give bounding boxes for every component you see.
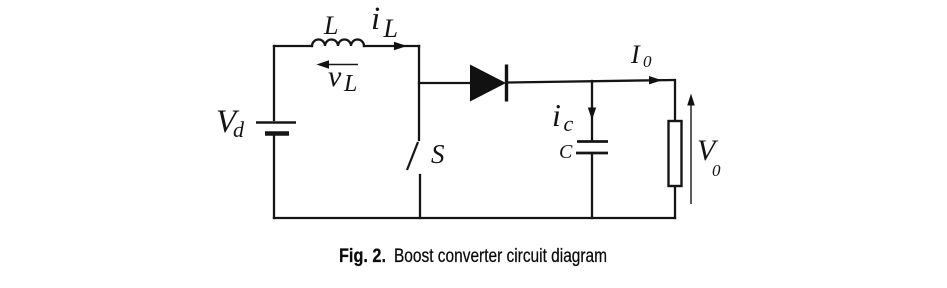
arrow iL on top wire (394, 42, 407, 50)
load resistor rectangle (669, 121, 682, 186)
wire left vertical lower (273, 135, 275, 218)
svg-text:L: L (383, 14, 398, 43)
battery source Vd (256, 123, 296, 134)
wire inductor to node A (364, 45, 419, 47)
wire switch lower vertical (419, 175, 421, 218)
wire capacitor branch lower (591, 154, 593, 218)
diode D (470, 65, 506, 102)
arrow I0 on output wire (649, 76, 662, 84)
wire diode to node B (507, 80, 674, 83)
wire capacitor branch upper (591, 81, 593, 140)
wire top left horizontal (274, 45, 312, 47)
svg-text:v: v (328, 60, 342, 93)
wire bottom (274, 217, 675, 219)
capacitor C plates (576, 142, 608, 154)
svg-text:d: d (233, 117, 245, 142)
wire node A to diode (419, 82, 470, 84)
arrow ic pointing down (588, 108, 596, 121)
svg-text:0: 0 (643, 52, 652, 71)
wire left vertical upper (273, 46, 275, 120)
svg-text:Boost converter circuit diagra: Boost converter circuit diagram (394, 246, 607, 267)
svg-text:i: i (371, 1, 380, 37)
svg-text:i: i (552, 97, 561, 133)
wire switch branch vertical (418, 46, 420, 140)
svg-text:I: I (630, 40, 641, 69)
svg-text:C: C (559, 141, 573, 163)
svg-text:0: 0 (712, 161, 721, 180)
svg-text:Fig. 2.: Fig. 2. (339, 246, 386, 267)
inductor L (312, 40, 364, 47)
svg-text:L: L (323, 11, 338, 40)
arrow vL pointing left (317, 60, 359, 68)
switch S blade (407, 142, 418, 170)
wire right vertical lower (674, 186, 676, 218)
wire right vertical upper (674, 80, 676, 121)
svg-text:S: S (431, 139, 445, 169)
arrow V0 pointing up (687, 94, 695, 205)
svg-text:c: c (564, 111, 574, 136)
diode cathode bar (505, 65, 508, 102)
svg-text:L: L (343, 71, 357, 97)
